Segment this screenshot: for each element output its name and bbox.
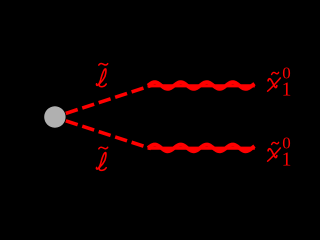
vertex blob bbox=[44, 106, 65, 127]
neutralino top straight line bbox=[148, 84, 255, 87]
neutralino label bottom (chi tilde 1 0) bbox=[268, 134, 292, 171]
neutralino bottom straight line bbox=[148, 147, 255, 150]
slepton label bottom (ell tilde) bbox=[96, 147, 107, 170]
neutralino label top (chi tilde 1 0) bbox=[268, 64, 292, 101]
slepton bottom dashed propagator bbox=[66, 121, 151, 149]
slepton label top (ell tilde) bbox=[96, 64, 107, 87]
svg-text:1: 1 bbox=[282, 80, 291, 101]
neutralino top wave bbox=[148, 82, 255, 89]
slepton top dashed propagator bbox=[66, 86, 151, 114]
svg-text:1: 1 bbox=[282, 150, 291, 171]
neutralino bottom wave bbox=[148, 145, 255, 152]
